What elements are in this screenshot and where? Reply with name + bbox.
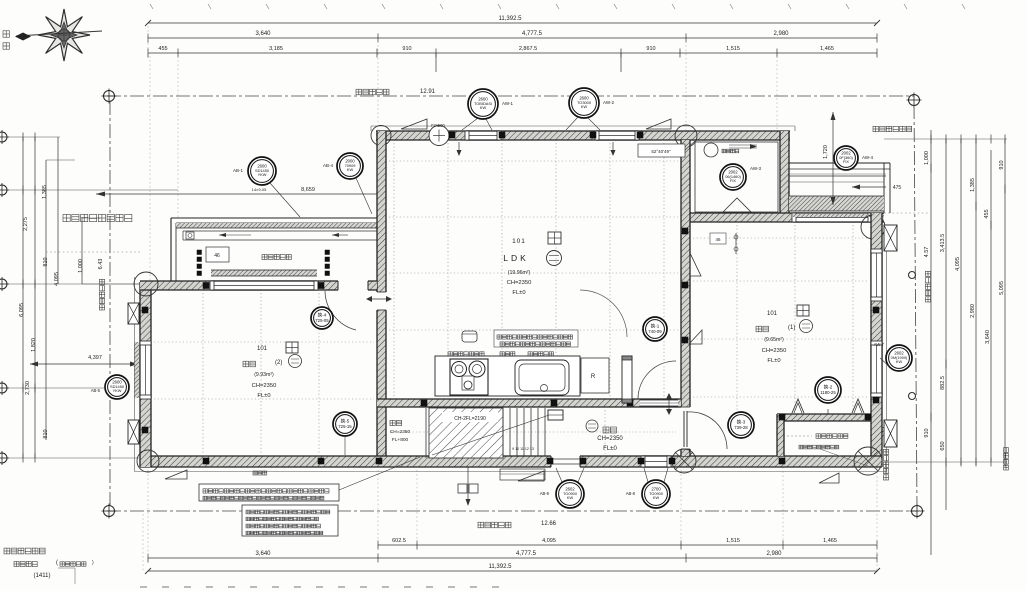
- entrance door opening: [551, 455, 580, 468]
- stair hatched part: [429, 408, 503, 458]
- svg-text:CH=2350: CH=2350: [507, 280, 532, 286]
- eaves offset lines: [371, 125, 795, 127]
- post: [376, 458, 382, 464]
- round FIX window: [429, 126, 449, 146]
- svg-text:910: 910: [924, 428, 930, 437]
- survey marker: [0, 279, 7, 289]
- refrigerator: [581, 358, 609, 393]
- svg-text:AB-4: AB-4: [323, 163, 334, 168]
- svg-text:725-05: 725-05: [315, 318, 329, 323]
- bottom dimension row A: 602.5/4,095/1,515/1,465: [378, 544, 877, 546]
- svg-text:AW-7: AW-7: [874, 342, 885, 347]
- kitchen note 2 lines: [494, 330, 578, 347]
- site boundary line right: [914, 105, 917, 506]
- balcony label: [262, 255, 291, 260]
- post: [873, 307, 879, 313]
- svg-text:1,515: 1,515: [726, 46, 740, 52]
- balcony inner rail lines: [183, 230, 377, 232]
- svg-text:AW-2: AW-2: [603, 100, 614, 105]
- west balcony outline: [171, 217, 383, 219]
- svg-text:3,413.5: 3,413.5: [940, 234, 946, 252]
- svg-text:910: 910: [402, 46, 411, 52]
- svg-text:(1): (1): [788, 325, 795, 331]
- svg-text:1,515: 1,515: [726, 538, 740, 544]
- interior wall x681: [681, 140, 690, 456]
- svg-text:52°40'49": 52°40'49": [651, 149, 671, 154]
- left dimension lines: [22, 137, 24, 458]
- post: [590, 132, 596, 138]
- kitchen note line2: [500, 342, 570, 346]
- compass north arrow: [38, 9, 90, 61]
- svg-text:4,777.5: 4,777.5: [516, 551, 537, 557]
- bottom dimension row C: overall 11,392.5: [148, 570, 877, 572]
- svg-text:3,640: 3,640: [985, 330, 991, 344]
- door swing top-right west room: [580, 290, 627, 337]
- post: [627, 400, 633, 406]
- survey marker: [0, 185, 7, 195]
- svg-text:11,392.5: 11,392.5: [489, 564, 513, 570]
- storage by stairs: [425, 408, 427, 458]
- east balcony rim lines: [789, 162, 890, 164]
- svg-text:6,095: 6,095: [19, 303, 25, 317]
- junction circle west-room NW: [134, 272, 158, 296]
- note box 1: [199, 484, 339, 501]
- svg-text:AW-1: AW-1: [502, 101, 513, 106]
- post: [203, 458, 209, 464]
- svg-text:(9.93m²): (9.93m²): [254, 372, 274, 378]
- svg-text:8,659: 8,659: [301, 187, 315, 193]
- svg-text:3,640: 3,640: [255, 31, 271, 37]
- junction circle S-mid: [672, 449, 696, 473]
- svg-text:CH=2350: CH=2350: [762, 348, 787, 354]
- svg-text:1,465: 1,465: [820, 46, 834, 52]
- survey marker: [104, 91, 115, 102]
- balcony drain: [186, 232, 194, 239]
- junction circle SE: [854, 447, 882, 475]
- svg-text:46: 46: [214, 253, 220, 259]
- svg-text:CH=2350: CH=2350: [390, 429, 411, 435]
- svg-text:5,095: 5,095: [999, 281, 1005, 295]
- module grid dashed (west room): [202, 293, 204, 454]
- svg-text:1,820: 1,820: [31, 338, 37, 352]
- svg-text:1,465: 1,465: [823, 538, 837, 544]
- svg-text:(: (: [56, 560, 58, 566]
- door west room: [325, 291, 356, 330]
- svg-text:KW: KW: [581, 104, 588, 109]
- stamp kan-4: [311, 307, 333, 329]
- survey marker: [912, 506, 923, 517]
- east window 1: [871, 250, 882, 300]
- svg-text:CH=2350: CH=2350: [252, 383, 277, 389]
- top dimension row 3: 455/3,185/910/2,867.5/910/1,515/1,465: [148, 52, 877, 54]
- futon hanger zigzag: [792, 399, 804, 413]
- post: [580, 458, 586, 464]
- top dimension row 1: overall 11,392.5: [148, 22, 877, 24]
- post: [637, 132, 643, 138]
- survey marker: [104, 506, 115, 517]
- module grid dashed (east room): [736, 225, 738, 412]
- top dimension row 2: 3,640 / 4,777.5 / 2,980: [148, 37, 877, 39]
- stair label CH-2FL: [442, 412, 498, 422]
- corridor kanji: [603, 427, 616, 433]
- svg-text:882.5: 882.5: [940, 376, 946, 390]
- balcony tip label left: [63, 214, 132, 221]
- balcony AD box: [206, 247, 229, 262]
- svg-text:1,000: 1,000: [78, 259, 84, 273]
- svg-text:(19.96m²): (19.96m²): [508, 270, 531, 276]
- stamp AB-8: [642, 480, 670, 508]
- svg-text:475: 475: [893, 185, 902, 191]
- pillar box E1: [884, 225, 897, 251]
- svg-text:9 10 11 12 13: 9 10 11 12 13: [512, 447, 534, 451]
- post: [318, 458, 324, 464]
- svg-text:AB-5: AB-5: [91, 388, 101, 393]
- gutter marks below north wall: [458, 142, 460, 154]
- stair up arrow: [432, 412, 558, 455]
- svg-text:2,275: 2,275: [23, 217, 29, 231]
- survey marker: [0, 132, 7, 142]
- balcony mid line: [789, 181, 884, 183]
- bottom dimension row B: 3,640/4,777.5/2,980: [148, 557, 877, 559]
- east wall: [871, 213, 882, 467]
- bath interior: [695, 142, 778, 212]
- stamp kan-3: [728, 412, 754, 438]
- stamp AB-9: [556, 480, 584, 508]
- svg-text:46: 46: [715, 237, 721, 242]
- bath door triangle: [723, 198, 751, 212]
- stamp AW-3: [720, 164, 746, 190]
- range hood label: [448, 352, 484, 356]
- svg-text:AB-9: AB-9: [540, 491, 550, 496]
- post: [421, 400, 427, 406]
- stamp AB-5: [105, 375, 129, 399]
- bottom page edge dots: [140, 586, 147, 588]
- svg-text:11,392.5: 11,392.5: [499, 16, 523, 22]
- svg-text:810: 810: [43, 429, 49, 438]
- svg-text:725-15: 725-15: [338, 424, 352, 429]
- extension guides from top dims to plan: [149, 56, 151, 282]
- svg-text:CH-2FL=2190: CH-2FL=2190: [454, 416, 486, 422]
- post: [682, 337, 688, 343]
- handrail box: [548, 410, 563, 420]
- balcony posts dotted: [197, 250, 202, 255]
- east window 2: [871, 342, 882, 396]
- svg-text:455: 455: [158, 46, 167, 52]
- compass label: [3, 31, 9, 37]
- post: [551, 400, 557, 406]
- 52deg site angle note: [638, 144, 685, 157]
- balcony slope arrows: [219, 234, 251, 236]
- svg-text:1,000: 1,000: [924, 151, 930, 165]
- post: [203, 283, 209, 289]
- svg-text:602.5: 602.5: [392, 538, 406, 544]
- svg-text:R: R: [591, 374, 596, 380]
- tiny label on south wall: [253, 471, 267, 475]
- closet label: [816, 434, 848, 439]
- svg-text:910: 910: [646, 46, 655, 52]
- bath label: [722, 149, 739, 153]
- svg-text:14×9-05: 14×9-05: [252, 187, 268, 192]
- west room north window (sliding): [211, 281, 317, 290]
- 8,659 dim line: [96, 193, 378, 195]
- svg-text:CH=2350: CH=2350: [597, 436, 623, 442]
- svg-text:739-28: 739-28: [734, 425, 748, 430]
- right boundary label 4.57: [925, 271, 930, 302]
- compass arrow line: [16, 31, 102, 36]
- pillar box E2: [884, 420, 897, 447]
- post: [449, 132, 455, 138]
- post: [865, 414, 871, 420]
- svg-text:KW: KW: [480, 105, 487, 110]
- note box 2: [242, 505, 338, 536]
- svg-text:AB-8: AB-8: [626, 491, 636, 496]
- stamp kan-1: [643, 317, 667, 341]
- post: [142, 427, 148, 433]
- svg-text:1180-25: 1180-25: [820, 390, 836, 395]
- svg-text:910: 910: [999, 160, 1005, 169]
- kitchen south wall: [377, 399, 681, 407]
- stair treads: [502, 408, 504, 456]
- stamp AW-4: [834, 146, 858, 170]
- entrance porch: [500, 469, 545, 480]
- svg-text:2,980: 2,980: [773, 31, 789, 37]
- road boundary label 6.43: [99, 279, 104, 310]
- svg-text:6.43: 6.43: [98, 259, 104, 270]
- north window W1: [466, 131, 500, 140]
- survey marker: [909, 95, 920, 106]
- balcony tip label right: [873, 126, 912, 131]
- pillar box W2: [128, 420, 139, 444]
- post: [779, 458, 785, 464]
- right boundary label 1.13: [883, 449, 888, 480]
- post: [682, 228, 688, 234]
- west room north wall: [140, 281, 377, 290]
- svg-text:3,640: 3,640: [255, 551, 271, 557]
- post: [873, 397, 879, 403]
- svg-text:1,385: 1,385: [970, 178, 976, 192]
- east room north window: [793, 213, 871, 222]
- svg-text:101: 101: [512, 238, 526, 245]
- svg-text:(2): (2): [275, 360, 282, 366]
- svg-text:FL±0: FL±0: [767, 358, 780, 364]
- svg-text:4,777.5: 4,777.5: [522, 31, 543, 37]
- svg-text:650: 650: [940, 441, 946, 450]
- 1,720 vertical dim: [832, 112, 834, 205]
- svg-text:2,867.5: 2,867.5: [519, 46, 537, 52]
- closet west wall: [777, 414, 784, 456]
- svg-text:FL±0: FL±0: [512, 290, 525, 296]
- svg-text:810: 810: [43, 257, 49, 266]
- right margin rotated text: [1004, 448, 1009, 470]
- svg-text:(9.65m²): (9.65m²): [764, 337, 784, 343]
- survey marker: [0, 453, 7, 463]
- stamp AW-1: [468, 89, 498, 119]
- label tonari-chi kyoukai-sen 12.91: [356, 89, 389, 95]
- junction circle SW: [137, 450, 159, 472]
- svg-text:1,385: 1,385: [42, 185, 48, 199]
- module grid dashed (corridor): [469, 410, 471, 454]
- stamp AB-4: [337, 153, 363, 179]
- svg-text:AW-3: AW-3: [750, 166, 761, 171]
- corridor labels: [586, 420, 598, 432]
- svg-text:4,397: 4,397: [88, 355, 102, 361]
- svg-text:KW: KW: [653, 495, 660, 500]
- svg-text:AW-4: AW-4: [862, 155, 873, 160]
- post: [142, 307, 148, 313]
- bath drum: [704, 143, 718, 157]
- svg-text:LDK: LDK: [503, 253, 529, 263]
- hanger annotation: [710, 233, 726, 244]
- 475 dim arrow: [852, 186, 886, 188]
- stamp AB-1: [248, 157, 276, 185]
- svg-text:4.57: 4.57: [924, 247, 930, 258]
- north wall: [376, 131, 790, 140]
- cupboard: [622, 356, 632, 403]
- kitchen counter: [435, 356, 580, 396]
- site boundary line (top) 12.91: [107, 95, 914, 97]
- svg-text:FIX500: FIX500: [431, 123, 445, 128]
- west window (terrace): [140, 342, 151, 398]
- svg-text:(1411): (1411): [34, 573, 51, 579]
- svg-text:FL+800: FL+800: [392, 437, 409, 443]
- junction circles north wall: [371, 126, 391, 146]
- storage label: [390, 420, 402, 425]
- stamp AB-7: [886, 345, 912, 371]
- north window W2: [596, 131, 638, 140]
- site boundary line left (road 6.43): [109, 101, 111, 506]
- svg-text:740-09: 740-09: [648, 329, 662, 334]
- guides to bottom dims: [377, 470, 379, 545]
- svg-text:4,095: 4,095: [542, 538, 556, 544]
- stove: [450, 359, 488, 395]
- label 12.66: [478, 522, 511, 528]
- module grid dashed (LDK): [393, 143, 395, 398]
- svg-text:101: 101: [767, 311, 778, 317]
- closet sub label: [799, 445, 839, 449]
- site boundary line (bottom) 12.66: [107, 510, 917, 512]
- svg-text:2,980: 2,980: [766, 551, 782, 557]
- post: [779, 414, 785, 420]
- svg-text:YKW: YKW: [113, 388, 122, 393]
- page edge ticks: [150, 4, 153, 9]
- svg-text:455: 455: [984, 209, 990, 218]
- junction circle NE: [861, 215, 885, 239]
- right dim lines: [884, 138, 1007, 140]
- svg-text:FL±0: FL±0: [257, 393, 270, 399]
- east room north wall: [686, 213, 884, 222]
- sash certification text: [4, 548, 45, 554]
- east balcony deck hatch: [789, 196, 884, 211]
- pillar box W1: [128, 303, 139, 324]
- svg-text:4,095: 4,095: [54, 272, 60, 286]
- stamp AW-2: [569, 88, 599, 118]
- west wall: [140, 282, 151, 467]
- survey marker: [0, 383, 7, 393]
- post: [499, 132, 505, 138]
- svg-text:KW: KW: [567, 495, 574, 500]
- svg-text:FIX: FIX: [843, 159, 849, 164]
- post: [547, 458, 553, 464]
- post: [682, 282, 688, 288]
- svg-text:3,185: 3,185: [269, 46, 283, 52]
- door LDK-corridor: [638, 361, 676, 399]
- svg-text:FIX: FIX: [730, 178, 736, 183]
- door east room: [683, 411, 685, 447]
- post: [669, 458, 675, 464]
- svg-text:1,720: 1,720: [823, 145, 829, 159]
- svg-text:FL±0: FL±0: [603, 446, 617, 452]
- svg-text:YKW: YKW: [258, 172, 267, 177]
- kitchen note line1: [497, 335, 573, 339]
- closet north wall: [777, 414, 871, 421]
- bath washer lines: [729, 144, 757, 146]
- LDK west wall: [377, 131, 386, 467]
- post: [638, 458, 644, 464]
- south wall: [140, 456, 882, 467]
- svg-text:2,980: 2,980: [970, 304, 976, 318]
- svg-text:12.66: 12.66: [541, 521, 557, 527]
- post: [318, 283, 324, 289]
- stamp kan-5: [333, 412, 357, 436]
- svg-text:KW: KW: [347, 167, 354, 172]
- svg-text:KW: KW: [896, 359, 903, 364]
- stamp kan-2: [815, 377, 841, 403]
- svg-text:101: 101: [257, 346, 268, 352]
- svg-text:12.91: 12.91: [420, 89, 436, 95]
- roof triangles: [401, 119, 427, 129]
- sink: [515, 360, 569, 395]
- drain symbol: [467, 467, 469, 500]
- triangle marks inside: [690, 253, 701, 276]
- svg-text:4,095: 4,095: [955, 257, 961, 271]
- bath east wall: [780, 131, 789, 222]
- svg-text:AB-1: AB-1: [233, 168, 244, 173]
- small wash basin above: [462, 331, 477, 342]
- door arrow symbol west: [368, 298, 390, 300]
- svg-text:2,730: 2,730: [25, 381, 31, 395]
- double arrow symbol: [668, 395, 670, 413]
- south window: [642, 456, 670, 467]
